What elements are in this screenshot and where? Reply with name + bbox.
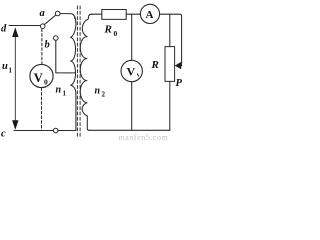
svg-text:R: R bbox=[151, 59, 159, 71]
voltmeter V lower lead bbox=[131, 82, 133, 131]
terminal b circle bbox=[54, 36, 59, 41]
switch pivot terminal circle bbox=[40, 24, 45, 29]
svg-text:1: 1 bbox=[9, 67, 13, 75]
wire R0 to ammeter bbox=[126, 13, 140, 15]
svg-text:u: u bbox=[2, 61, 8, 72]
svg-text:n: n bbox=[56, 85, 62, 96]
svg-text:n: n bbox=[95, 86, 101, 97]
winding n1 (primary) bbox=[71, 17, 76, 131]
svg-text:b: b bbox=[45, 40, 50, 51]
svg-text:R: R bbox=[104, 24, 112, 36]
svg-text:manfen5.com: manfen5.com bbox=[119, 133, 169, 142]
dashed lead V0 to bottom wire bbox=[41, 88, 43, 131]
svg-text:c: c bbox=[1, 129, 6, 140]
svg-text:0: 0 bbox=[114, 29, 118, 38]
ammeter A circle bbox=[140, 4, 159, 23]
voltmeter V circle bbox=[121, 60, 142, 81]
u1 arrow head top bbox=[12, 27, 18, 37]
transformer core dashed line right bbox=[79, 6, 81, 137]
svg-text:0: 0 bbox=[44, 78, 48, 87]
wire from terminal b to winding tap bbox=[56, 40, 75, 73]
terminal a circle bbox=[55, 11, 60, 16]
rheostat R box bbox=[165, 47, 175, 82]
svg-text:A: A bbox=[146, 9, 154, 21]
u1 arrow head bottom bbox=[12, 120, 18, 130]
R bottom lead bbox=[169, 81, 171, 130]
svg-text:1: 1 bbox=[63, 90, 67, 98]
svg-text:P: P bbox=[176, 78, 183, 89]
svg-text:a: a bbox=[40, 8, 45, 19]
slider arrow line bbox=[180, 65, 181, 67]
secondary top wire to R0 bbox=[91, 13, 102, 15]
V meter needle tick bbox=[137, 74, 138, 77]
wire d to switch pivot bbox=[9, 25, 40, 27]
secondary bottom wire bbox=[89, 129, 170, 131]
svg-text:2: 2 bbox=[102, 91, 106, 99]
svg-text:d: d bbox=[1, 24, 7, 35]
switch blade bbox=[45, 15, 56, 24]
svg-text:V: V bbox=[127, 65, 136, 79]
bottom wire c bbox=[14, 130, 76, 132]
resistor R0 box bbox=[102, 10, 126, 20]
dashed lead pivot to voltmeter V0 bbox=[41, 29, 43, 64]
junction wire down to voltmeter V bbox=[131, 14, 133, 60]
terminal circle on bottom wire bbox=[53, 128, 58, 133]
slider arrow head bbox=[175, 62, 182, 69]
svg-text:V: V bbox=[34, 71, 43, 85]
voltmeter V0 circle bbox=[30, 64, 53, 87]
winding n2 (secondary) bbox=[80, 14, 91, 130]
R top lead bbox=[169, 14, 171, 46]
u1 measuring arrow shaft bbox=[14, 30, 16, 129]
wire ammeter to top right corner, down right side bbox=[160, 14, 182, 65]
wire from terminal a to transformer primary top bbox=[60, 14, 75, 19]
transformer core dashed line left bbox=[76, 6, 78, 137]
